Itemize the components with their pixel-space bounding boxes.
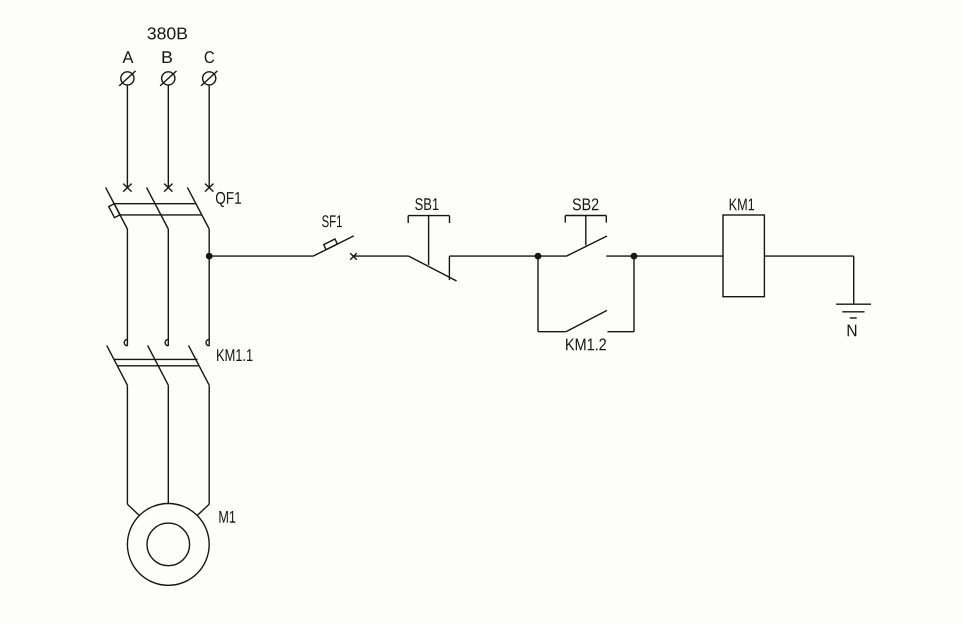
contact KM1.2 NO contact bar — [566, 310, 607, 331]
contactor KM1.1 pole A fixed contact arc — [124, 339, 127, 345]
pushbutton SB2 actuator bracket — [565, 216, 606, 223]
switch SF1 fixed contact x — [350, 253, 357, 260]
wire KM1 coil to neutral — [764, 256, 853, 304]
label KM1 — [730, 199, 754, 211]
wire QF1 to KM1.1 pole C — [208, 229, 210, 346]
phase label A — [123, 51, 134, 63]
wire SB1 to SB2 — [449, 255, 566, 257]
wire phase B to QF1 — [167, 85, 169, 188]
contactor KM1.1 pole B fixed contact arc — [165, 339, 168, 345]
wire tap to SF1 — [209, 255, 313, 257]
contactor KM1.1 linkage top bar — [114, 358, 198, 360]
breaker QF1 pole C lever — [187, 187, 209, 229]
pushbutton SB2 NO contact bar — [567, 236, 608, 256]
wire KM1.1 to motor pole A — [127, 385, 139, 516]
terminal B — [160, 71, 176, 86]
label SB1 — [415, 198, 438, 210]
phase label B — [163, 51, 173, 63]
contactor KM1.1 pole A lever — [107, 345, 128, 385]
pushbutton SB1 stem — [428, 216, 430, 265]
breaker QF1 linkage bottom bar — [120, 214, 202, 216]
wire phase C to QF1 — [208, 85, 210, 188]
terminal C — [201, 71, 217, 86]
contact KM1.2 right branch wire — [608, 256, 635, 332]
switch SF1 actuator box — [324, 239, 338, 250]
wire phase A to QF1 — [126, 85, 128, 188]
breaker QF1 pole A lever — [106, 187, 128, 229]
phase label C — [205, 51, 214, 63]
node junction left — [535, 253, 542, 260]
pushbutton SB2 stem — [585, 216, 587, 246]
breaker QF1 pole C fixed contact x — [205, 184, 213, 192]
contactor KM1.1 pole C fixed contact arc — [206, 339, 209, 345]
wire KM1.1 to motor pole B — [167, 385, 169, 503]
coil KM1 — [723, 215, 764, 297]
contactor KM1.1 pole B lever — [148, 345, 169, 385]
switch SF1 lever — [313, 236, 354, 256]
motor M1 inner circle — [147, 523, 190, 566]
breaker QF1 pole B fixed contact x — [164, 184, 172, 192]
wire QF1 to KM1.1 pole B — [167, 229, 169, 346]
terminal A — [119, 71, 135, 86]
wire SB2 to KM1 coil — [606, 255, 723, 257]
label SB2 — [573, 198, 599, 210]
wire KM1.1 to motor pole C — [197, 385, 209, 516]
contact KM1.2 left branch wire — [538, 256, 566, 332]
contactor KM1.1 pole C lever — [189, 345, 210, 385]
pushbutton SB1 actuator bracket — [408, 216, 449, 223]
breaker QF1 actuator box — [109, 204, 120, 218]
pushbutton SB1 right terminal — [448, 256, 450, 280]
breaker QF1 pole B lever — [147, 187, 169, 229]
breaker QF1 pole A fixed contact x — [123, 184, 131, 192]
motor M1 outer circle — [127, 504, 209, 586]
pushbutton SB1 NC contact bar — [409, 256, 457, 281]
label KM1.1 — [217, 349, 252, 361]
node control tap on pole C — [206, 253, 213, 260]
label KM1.2 — [566, 338, 606, 350]
contactor KM1.1 linkage bottom bar — [117, 365, 199, 367]
wire SF1 to SB1 — [354, 255, 409, 257]
breaker QF1 linkage top bar — [114, 203, 196, 205]
title 380B — [148, 27, 188, 39]
ground symbol N — [836, 304, 871, 318]
wire QF1 to KM1.1 pole A — [126, 229, 128, 346]
label N — [848, 325, 857, 337]
label QF1 — [216, 192, 241, 207]
label M1 — [219, 511, 235, 523]
node junction right — [631, 253, 638, 260]
label SF1 — [322, 215, 342, 227]
